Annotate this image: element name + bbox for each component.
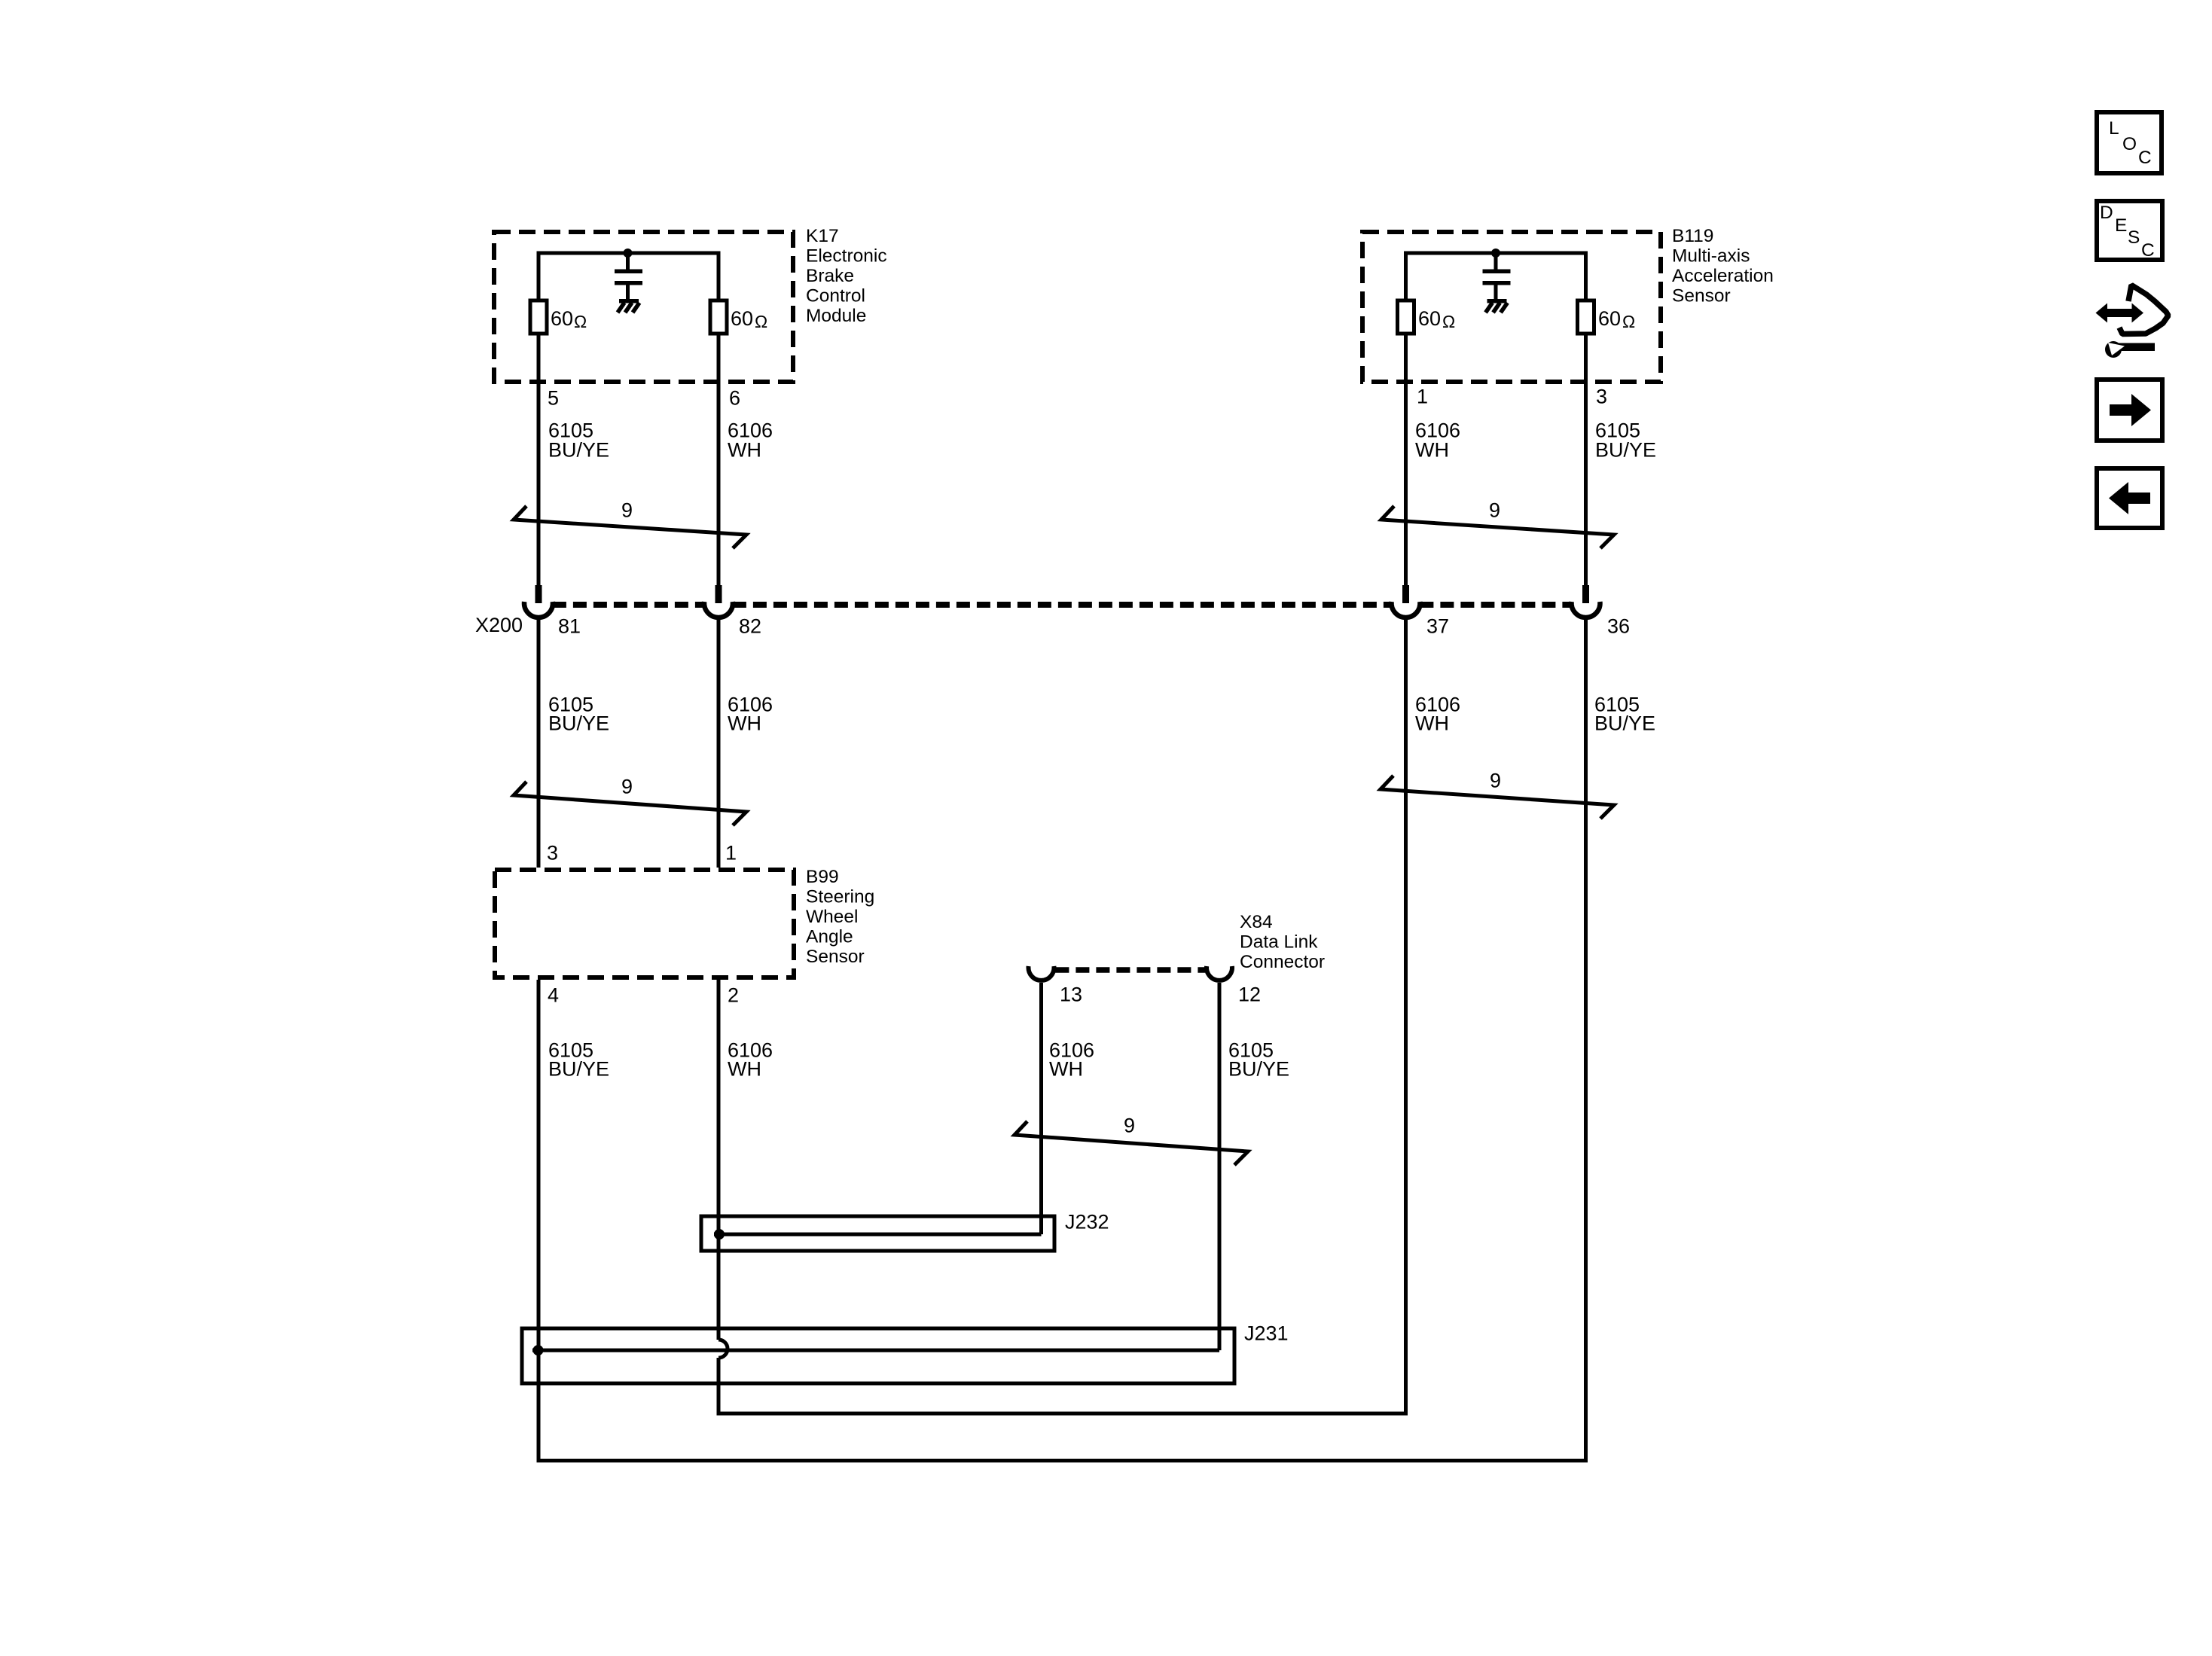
svg-text:3: 3: [547, 842, 558, 865]
svg-text:Sensor: Sensor: [1672, 285, 1731, 306]
ground (B119 chassis ground): [1486, 299, 1508, 313]
value label 60 ohm (B119 right): [1598, 307, 1635, 331]
svg-text:9: 9: [1490, 770, 1501, 792]
wire 6106 WH col B mid (X200 to B99 pin1): [717, 618, 721, 868]
svg-text:Brake: Brake: [806, 266, 854, 286]
svg-text:Multi-axis: Multi-axis: [1672, 246, 1750, 266]
wire 6105 BU/YE col F upper (B119 pin3 to X200): [1584, 334, 1588, 602]
svg-text:WH: WH: [1049, 1058, 1083, 1081]
value label 60 ohm (B119 left): [1418, 307, 1455, 331]
nav left-arrow box: [2097, 468, 2162, 528]
wire label 6106 WH (col E mid): [1415, 694, 1460, 735]
X200 terminal col A: [524, 585, 553, 618]
svg-text:E: E: [2115, 215, 2127, 236]
svg-text:D: D: [2100, 203, 2113, 223]
X200 terminal col E: [1392, 585, 1420, 618]
svg-text:B99: B99: [806, 867, 839, 887]
wire 6106 WH col E upper (B119 pin1 to X200): [1404, 334, 1408, 602]
svg-text:WH: WH: [728, 712, 761, 735]
svg-text:Data Link: Data Link: [1240, 932, 1318, 952]
wire 6105 BU/YE col A mid (X200 to B99 pin3): [537, 618, 541, 868]
capacitor C (K17 CAN termination): [615, 253, 642, 300]
value label 60 ohm (K17 right): [731, 307, 767, 331]
wire B119 internal top bus: [1406, 253, 1586, 302]
svg-text:J232: J232: [1065, 1211, 1109, 1234]
svg-text:Sensor: Sensor: [806, 947, 865, 967]
svg-text:9: 9: [621, 499, 633, 522]
wire label 6106 WH (col C lower): [1049, 1039, 1094, 1081]
svg-text:81: 81: [558, 615, 581, 638]
wire label 6105 BU/YE (col F mid): [1594, 694, 1655, 735]
twisted pair mark mid-left: [514, 782, 746, 825]
svg-text:6: 6: [729, 387, 740, 410]
diagnostic icon (double arrow, connector outline, wrench): [2096, 285, 2169, 358]
svg-text:L: L: [2109, 118, 2119, 139]
wire 6106 WH col B lower (B99 pin2 through J232 to hop): [717, 980, 721, 1340]
svg-text:BU/YE: BU/YE: [548, 439, 609, 462]
svg-text:1: 1: [1417, 386, 1428, 408]
svg-text:Connector: Connector: [1240, 952, 1325, 972]
svg-text:Ω: Ω: [755, 312, 767, 331]
B99 module dashed box: [495, 870, 794, 977]
node J232 splice dot: [714, 1229, 725, 1240]
B99 module name label: [806, 867, 874, 967]
DESC nav box: [2097, 201, 2162, 261]
svg-text:Ω: Ω: [1622, 312, 1635, 331]
X200 dashed connector line: [553, 602, 1572, 608]
splice J231 bus line: [532, 1349, 1219, 1353]
svg-text:BU/YE: BU/YE: [1594, 712, 1655, 735]
svg-text:9: 9: [1124, 1115, 1135, 1137]
ground (K17 chassis ground): [618, 299, 639, 313]
splice J231 box: [522, 1328, 1234, 1383]
svg-text:BU/YE: BU/YE: [1595, 439, 1656, 462]
svg-text:60: 60: [1598, 307, 1621, 330]
wire label 6106 WH (col B mid): [728, 694, 773, 735]
svg-text:X84: X84: [1240, 912, 1273, 932]
svg-text:37: 37: [1426, 615, 1449, 638]
svg-text:5: 5: [548, 387, 559, 410]
splice J232 box: [701, 1216, 1054, 1251]
svg-text:4: 4: [548, 984, 559, 1007]
X84 name label: [1240, 912, 1325, 972]
svg-text:82: 82: [739, 615, 761, 638]
wire 6105 BU/YE col A lower (B99 pin4 through J231 to B119 pin3 via bottom run): [539, 618, 1586, 1461]
svg-text:C: C: [2141, 240, 2155, 261]
svg-text:BU/YE: BU/YE: [548, 712, 609, 735]
svg-text:WH: WH: [1415, 439, 1449, 462]
svg-text:WH: WH: [728, 439, 761, 462]
svg-text:Module: Module: [806, 306, 866, 326]
X84 dashed connector line: [1055, 967, 1205, 973]
wire 6105 BU/YE col D (X84 pin12 down to J231): [1218, 983, 1222, 1350]
twisted pair mark lower (X84 pair): [1014, 1121, 1248, 1165]
svg-text:36: 36: [1607, 615, 1630, 638]
svg-text:13: 13: [1060, 984, 1082, 1006]
svg-text:Acceleration: Acceleration: [1672, 266, 1774, 286]
wire label 6105 BU/YE (col A mid): [548, 694, 609, 735]
wire label 6106 WH (col B lower): [728, 1039, 773, 1081]
twisted pair mark upper-left: [514, 506, 746, 548]
wire label 6105 BU/YE (col A upper): [548, 419, 609, 462]
svg-text:60: 60: [731, 307, 753, 330]
node J231 splice dot: [533, 1345, 544, 1356]
svg-text:Steering: Steering: [806, 886, 874, 907]
svg-text:Electronic: Electronic: [806, 246, 887, 266]
resistor R 60ohm (B119 left): [1398, 300, 1414, 334]
svg-text:C: C: [2138, 148, 2152, 168]
wire label 6106 WH (col B upper): [728, 419, 773, 462]
wire 6106 WH col C (X84 pin13 down to J232): [1039, 983, 1043, 1234]
svg-text:Ω: Ω: [1442, 312, 1455, 331]
svg-text:2: 2: [728, 984, 739, 1007]
resistor R 60ohm (K17 right): [710, 300, 727, 334]
nav right-arrow box: [2097, 380, 2162, 441]
svg-text:S: S: [2128, 227, 2140, 248]
B119 module name label: [1672, 226, 1774, 306]
X200 terminal col F: [1572, 585, 1600, 618]
wire label 6105 BU/YE (col F upper): [1595, 419, 1656, 462]
node K17 junction dot: [624, 249, 633, 258]
svg-text:Wheel: Wheel: [806, 907, 858, 927]
value label 60 ohm (K17 left): [551, 307, 587, 331]
svg-text:60: 60: [551, 307, 573, 330]
splice J232 bus line: [714, 1233, 1042, 1237]
wire 6106 WH col B bottom run (hop to B119 pin1 riser): [719, 619, 1406, 1414]
wire hop over J231 bus (no connection): [719, 1340, 728, 1358]
svg-text:B119: B119: [1672, 226, 1713, 246]
wire K17 internal top bus: [539, 253, 719, 302]
twisted pair mark mid-right: [1381, 776, 1614, 819]
X200 terminal col B: [704, 585, 733, 618]
svg-text:WH: WH: [1415, 712, 1449, 735]
K17 module dashed box: [494, 232, 793, 382]
svg-text:BU/YE: BU/YE: [548, 1058, 609, 1081]
svg-text:WH: WH: [728, 1058, 761, 1081]
svg-text:X200: X200: [475, 614, 523, 636]
resistor R 60ohm (K17 left): [530, 300, 547, 334]
X84 terminal col D: [1207, 966, 1232, 980]
svg-text:60: 60: [1418, 307, 1441, 330]
svg-text:K17: K17: [806, 226, 839, 246]
svg-text:J231: J231: [1244, 1322, 1289, 1345]
X84 terminal col C: [1028, 966, 1054, 980]
svg-text:9: 9: [1489, 499, 1500, 522]
capacitor C (B119 CAN termination): [1483, 253, 1511, 300]
K17 module name label: [806, 226, 887, 326]
svg-text:3: 3: [1596, 386, 1607, 408]
svg-text:12: 12: [1238, 984, 1261, 1006]
wire 6106 WH col B upper (K17 pin6 to X200): [717, 334, 721, 602]
wire label 6105 BU/YE (col A lower): [548, 1039, 609, 1081]
svg-text:O: O: [2122, 134, 2137, 154]
svg-text:1: 1: [725, 842, 737, 865]
twisted pair mark upper-right: [1381, 506, 1614, 548]
svg-text:Angle: Angle: [806, 926, 853, 947]
wire 6105 BU/YE col A upper (K17 pin5 to X200): [537, 334, 541, 602]
resistor R 60ohm (B119 right): [1578, 300, 1594, 334]
svg-text:Control: Control: [806, 285, 865, 306]
B119 module dashed box: [1362, 232, 1661, 382]
svg-text:Ω: Ω: [574, 312, 587, 331]
wire label 6106 WH (col E upper): [1415, 419, 1460, 462]
LOC nav box: [2097, 112, 2162, 173]
svg-text:BU/YE: BU/YE: [1228, 1058, 1289, 1081]
svg-text:9: 9: [621, 776, 633, 798]
node B119 junction dot: [1491, 249, 1500, 258]
wire label 6105 BU/YE (col D lower): [1228, 1039, 1289, 1081]
